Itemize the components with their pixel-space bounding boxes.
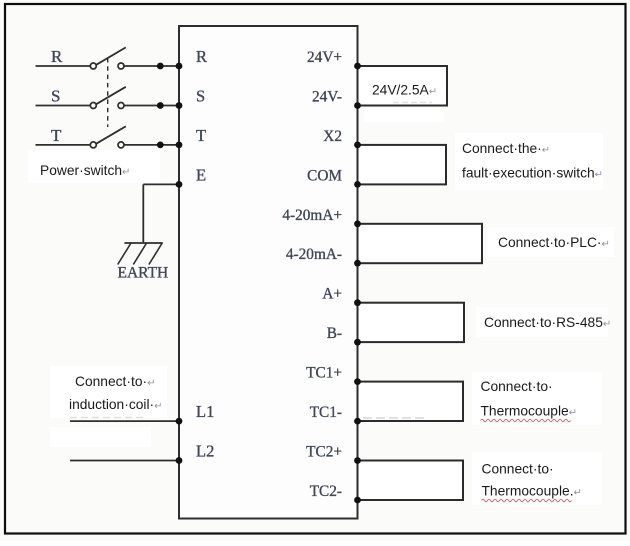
svg-text:S: S (51, 87, 60, 106)
svg-text:Connect·to·: Connect·to· (481, 379, 553, 394)
svg-text:R: R (51, 47, 63, 66)
svg-text:Thermocouple↵: Thermocouple↵ (481, 404, 578, 419)
svg-text:TC2-: TC2- (310, 483, 342, 500)
svg-text:B-: B- (327, 325, 342, 342)
svg-text:L2: L2 (196, 442, 214, 461)
svg-text:24V+: 24V+ (307, 49, 342, 66)
svg-text:TC1+: TC1+ (306, 365, 342, 382)
svg-text:L1: L1 (196, 402, 214, 421)
svg-text:COM: COM (307, 167, 342, 184)
svg-text:Connect·to·RS-485↵: Connect·to·RS-485↵ (484, 315, 611, 330)
svg-text:E: E (196, 165, 206, 184)
svg-text:A+: A+ (322, 286, 342, 303)
svg-text:EARTH: EARTH (118, 265, 169, 282)
svg-text:24V-: 24V- (312, 89, 342, 106)
svg-text:Connect·to·↵: Connect·to·↵ (75, 374, 155, 389)
svg-text:T: T (51, 126, 62, 145)
svg-text:TC1-: TC1- (310, 404, 342, 421)
svg-text:4-20mA-: 4-20mA- (286, 246, 342, 263)
svg-text:Connect·to·PLC·↵: Connect·to·PLC·↵ (498, 235, 610, 250)
svg-text:Connect·to·: Connect·to· (482, 461, 554, 476)
svg-text:Power·switch↵: Power·switch↵ (40, 163, 130, 178)
svg-text:4-20mA+: 4-20mA+ (282, 207, 342, 224)
svg-text:S: S (196, 87, 205, 106)
svg-text:TC2+: TC2+ (306, 444, 342, 461)
svg-text:Connect·the·↵: Connect·the·↵ (462, 141, 550, 156)
svg-text:R: R (196, 47, 207, 66)
svg-text:T: T (196, 126, 206, 145)
svg-text:Thermocouple.↵: Thermocouple.↵ (482, 484, 582, 499)
svg-text:X2: X2 (323, 128, 342, 145)
svg-text:induction·coil·↵: induction·coil·↵ (69, 397, 163, 412)
svg-text:24V/2.5A↵: 24V/2.5A↵ (372, 83, 437, 98)
svg-text:fault·execution·switch↵: fault·execution·switch↵ (462, 166, 603, 181)
